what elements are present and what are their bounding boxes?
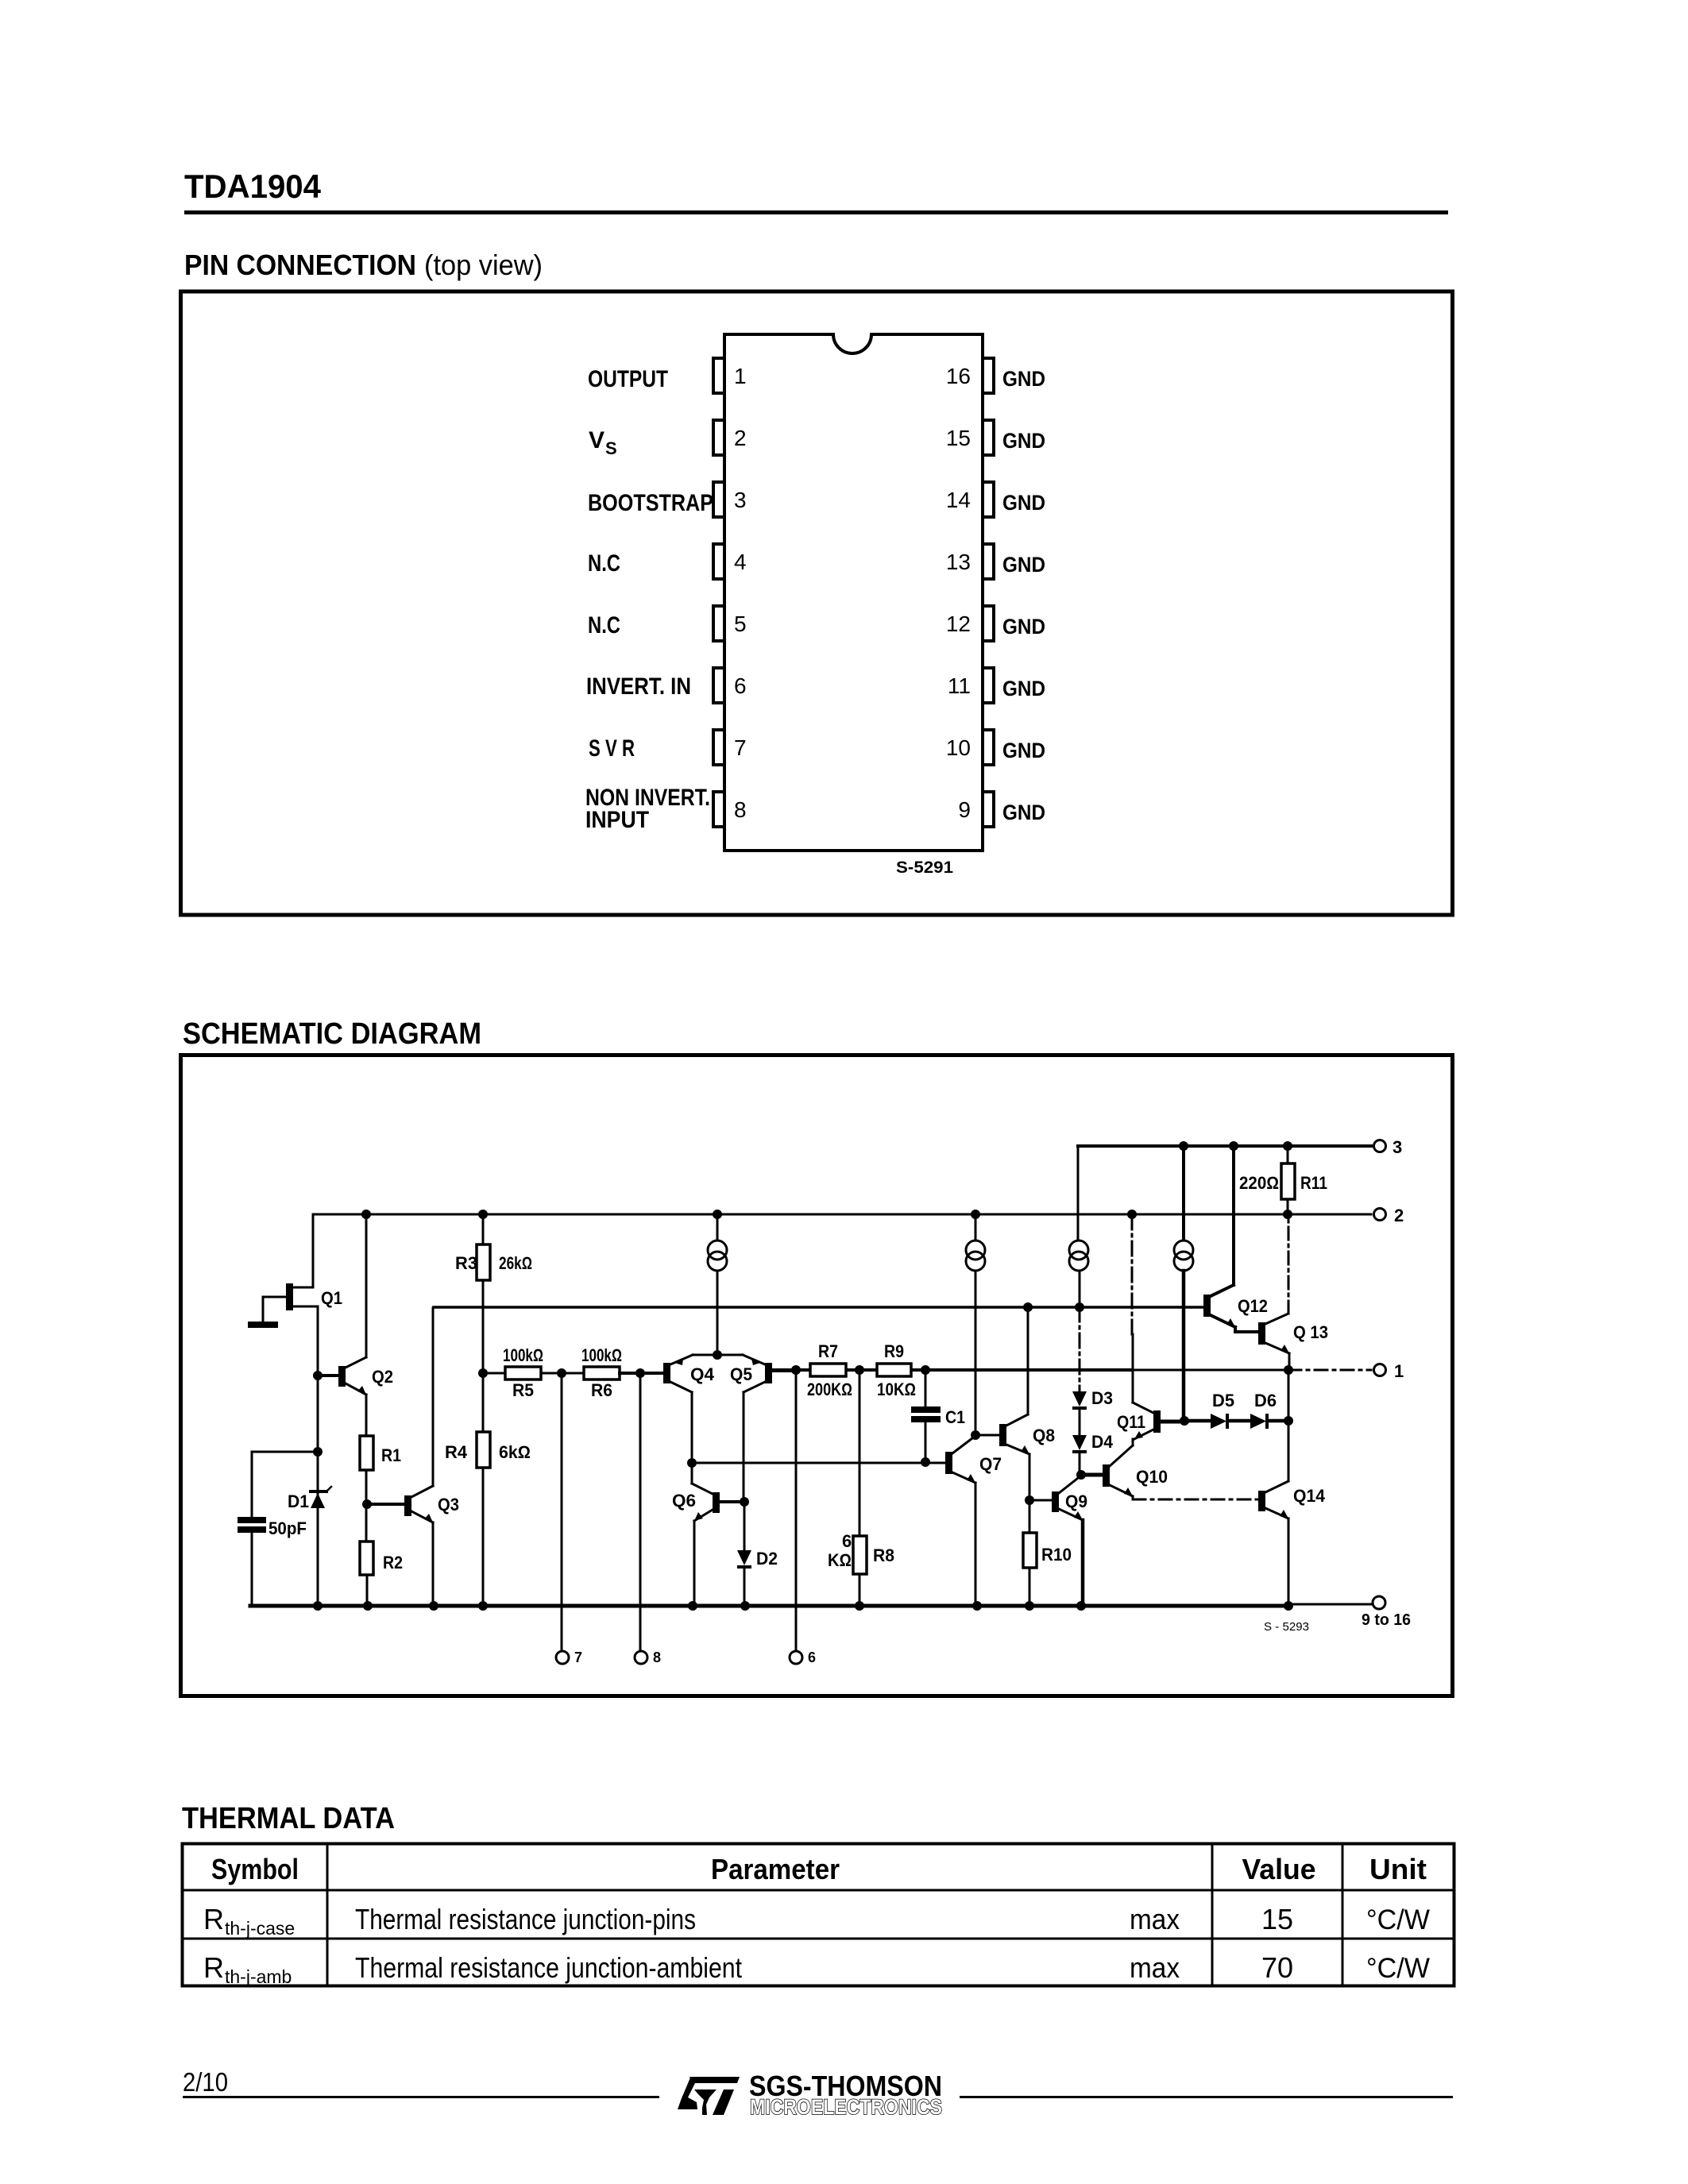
svg-text:R1: R1 xyxy=(381,1445,401,1465)
svg-text:Q9: Q9 xyxy=(1065,1491,1087,1511)
svg-text:Q7: Q7 xyxy=(979,1454,1002,1474)
svg-text:S: S xyxy=(605,438,617,458)
svg-text:5: 5 xyxy=(734,612,747,636)
diode D6 xyxy=(1250,1391,1293,1429)
svg-text:16: 16 xyxy=(946,364,971,388)
diode D1 (zener) xyxy=(288,1487,331,1606)
svg-text:(top view): (top view) xyxy=(424,249,543,281)
wire: output node vertical xyxy=(1288,1370,1290,1481)
wire: bootstrap bus (pin 3) xyxy=(1078,1141,1371,1151)
resistor R3 xyxy=(455,1214,532,1373)
wire: output line (pin 1) xyxy=(772,1365,1371,1375)
footer rule left xyxy=(183,2096,659,2098)
resistor R4 xyxy=(445,1368,531,1606)
node Q10 base junction xyxy=(1076,1470,1103,1480)
svg-text:SCHEMATIC DIAGRAM: SCHEMATIC DIAGRAM xyxy=(183,1017,481,1051)
transistor Q9 xyxy=(1025,1476,1087,1606)
svg-text:R3: R3 xyxy=(455,1253,477,1273)
svg-text:THERMAL DATA: THERMAL DATA xyxy=(182,1802,395,1835)
svg-text:KΩ: KΩ xyxy=(828,1550,852,1570)
svg-text:R: R xyxy=(203,1903,224,1935)
resistor R7 xyxy=(807,1341,852,1399)
thermal data table frame xyxy=(183,1844,1454,1986)
svg-text:D3: D3 xyxy=(1091,1388,1113,1408)
svg-text:2/10: 2/10 xyxy=(183,2067,228,2097)
resistor R8 xyxy=(828,1370,894,1606)
resistor R11 xyxy=(1239,1146,1327,1214)
svg-text:OUTPUT: OUTPUT xyxy=(588,366,668,392)
svg-text:Parameter: Parameter xyxy=(711,1853,840,1885)
resistor R6 xyxy=(557,1345,663,1400)
svg-text:D4: D4 xyxy=(1091,1432,1114,1452)
svg-text:R7: R7 xyxy=(818,1341,838,1361)
svg-text:Symbol: Symbol xyxy=(211,1853,299,1885)
svg-text:Q4: Q4 xyxy=(690,1364,715,1384)
wire: Q1 to Q2 base and D1 xyxy=(313,1306,323,1491)
wire: to pin 8 xyxy=(635,1373,661,1665)
wire: R1-R2 node to Q3 base xyxy=(362,1470,404,1542)
svg-text:R6: R6 xyxy=(591,1380,612,1400)
transistor Q10 xyxy=(1103,1439,1168,1499)
svg-text:6kΩ: 6kΩ xyxy=(499,1442,531,1462)
index notch xyxy=(833,314,871,352)
svg-text:7: 7 xyxy=(574,1650,582,1665)
pin 15 xyxy=(983,420,994,455)
svg-text:10KΩ: 10KΩ xyxy=(877,1379,916,1399)
resistor R10 xyxy=(1023,1500,1072,1606)
svg-text:11: 11 xyxy=(948,673,971,698)
svg-text:1: 1 xyxy=(1394,1361,1404,1381)
ground symbol at Q1 xyxy=(248,1322,278,1328)
node pin 1 terminal xyxy=(1374,1361,1404,1381)
svg-text:14: 14 xyxy=(946,488,971,512)
svg-text:15: 15 xyxy=(946,426,971,450)
transistor Q3 xyxy=(404,1308,459,1606)
svg-text:2: 2 xyxy=(734,426,747,450)
svg-text:D2: D2 xyxy=(756,1549,778,1569)
node pin 3 terminal xyxy=(1374,1137,1403,1157)
wire: to pin 7 xyxy=(556,1373,582,1665)
svg-text:Q14: Q14 xyxy=(1293,1486,1326,1506)
wire: ground bus (pins 9 to 16) xyxy=(250,1601,1371,1611)
svg-text:100kΩ: 100kΩ xyxy=(581,1345,622,1365)
diode D2 xyxy=(737,1502,778,1606)
svg-text:Thermal resistance junction-pi: Thermal resistance junction-pins xyxy=(355,1903,696,1935)
svg-text:6: 6 xyxy=(808,1650,816,1665)
svg-text:9 to 16: 9 to 16 xyxy=(1362,1611,1411,1629)
pin 7 xyxy=(713,730,724,765)
current source CS1 xyxy=(708,1214,727,1355)
pin 14 xyxy=(983,482,994,517)
svg-text:°C/W: °C/W xyxy=(1366,1953,1430,1984)
svg-text:D1: D1 xyxy=(288,1491,309,1511)
svg-text:R8: R8 xyxy=(873,1545,894,1565)
transistor Q5 xyxy=(713,1350,796,1497)
transistor Q2 xyxy=(318,1214,393,1436)
wire: bias bus to Q12 base xyxy=(434,1302,1204,1312)
svg-text:1: 1 xyxy=(734,364,747,388)
svg-text:Value: Value xyxy=(1242,1853,1316,1885)
pin 4 xyxy=(713,544,724,579)
svg-text:D6: D6 xyxy=(1254,1391,1277,1410)
svg-text:Q2: Q2 xyxy=(372,1367,393,1387)
svg-text:MICROELECTRONICS: MICROELECTRONICS xyxy=(750,2095,942,2119)
svg-text:R11: R11 xyxy=(1300,1173,1327,1193)
transistor Q7 xyxy=(945,1436,1002,1606)
svg-text:GND: GND xyxy=(1002,739,1045,762)
svg-text:Q5: Q5 xyxy=(730,1364,752,1384)
transistor Q1 xyxy=(263,1214,342,1322)
svg-text:S-5291: S-5291 xyxy=(896,859,953,877)
pin 11 xyxy=(983,668,994,703)
capacitor C1 xyxy=(911,1370,965,1462)
svg-text:Q10: Q10 xyxy=(1136,1467,1168,1487)
svg-text:S - 5293: S - 5293 xyxy=(1264,1620,1309,1634)
svg-text:Unit: Unit xyxy=(1369,1853,1427,1885)
svg-text:N.C: N.C xyxy=(588,550,620,577)
svg-text:3: 3 xyxy=(734,488,747,512)
wire: Q4 collector to Q7 base xyxy=(687,1457,945,1468)
svg-text:Thermal resistance junction-am: Thermal resistance junction-ambient xyxy=(355,1951,742,1984)
svg-text:R5: R5 xyxy=(512,1380,534,1400)
resistor R2 xyxy=(360,1542,403,1606)
svg-text:INVERT. IN: INVERT. IN xyxy=(586,673,691,700)
capacitor 50pF xyxy=(238,1452,318,1606)
transistor Q4 xyxy=(663,1355,717,1463)
wire: Q10 emitter to Q14 base xyxy=(1133,1499,1258,1501)
svg-text:th-j-case: th-j-case xyxy=(225,1918,295,1939)
diode D4 xyxy=(1072,1432,1114,1475)
svg-text:D5: D5 xyxy=(1212,1391,1234,1410)
svg-text:INPUT: INPUT xyxy=(585,807,649,833)
svg-text:6: 6 xyxy=(734,673,747,698)
svg-text:GND: GND xyxy=(1002,615,1045,639)
pin 2 xyxy=(713,420,724,455)
svg-text:220Ω: 220Ω xyxy=(1239,1173,1279,1193)
SGS-Thomson ST logo symbol xyxy=(678,2077,740,2115)
svg-text:TDA1904: TDA1904 xyxy=(184,168,322,205)
transistor Q8 xyxy=(975,1307,1055,1500)
svg-text:2: 2 xyxy=(1394,1206,1404,1225)
wire: supply bus Vs (pin 2) xyxy=(313,1210,1371,1219)
svg-text:GND: GND xyxy=(1002,801,1045,824)
svg-text:V: V xyxy=(589,427,605,453)
svg-text:max: max xyxy=(1130,1951,1180,1984)
svg-text:R9: R9 xyxy=(884,1341,904,1361)
svg-text:4: 4 xyxy=(734,550,747,574)
transistor Q11 xyxy=(1117,1214,1184,1439)
current source CS3 xyxy=(1069,1146,1088,1391)
resistor R5 xyxy=(483,1345,584,1400)
svg-text:Q 13: Q 13 xyxy=(1293,1322,1328,1342)
svg-text:Q11: Q11 xyxy=(1117,1412,1145,1432)
transistor Q6 xyxy=(672,1463,749,1606)
svg-text:GND: GND xyxy=(1002,367,1045,391)
header rule xyxy=(184,210,1448,214)
pin 9 xyxy=(983,792,994,827)
pin 16 xyxy=(983,358,994,393)
svg-text:C1: C1 xyxy=(945,1407,965,1427)
svg-text:8: 8 xyxy=(734,797,747,822)
svg-text:GND: GND xyxy=(1002,553,1045,577)
svg-text:10: 10 xyxy=(946,735,971,760)
resistor R1 xyxy=(360,1436,401,1470)
svg-text:Q3: Q3 xyxy=(438,1495,459,1515)
svg-text:°C/W: °C/W xyxy=(1366,1904,1430,1935)
svg-text:8: 8 xyxy=(653,1650,661,1665)
node pin 2 terminal xyxy=(1374,1206,1404,1225)
resistor R9 xyxy=(877,1341,916,1399)
svg-text:7: 7 xyxy=(734,735,747,760)
DIP-16 package body xyxy=(724,334,983,851)
svg-text:R2: R2 xyxy=(383,1553,403,1572)
pin connection frame xyxy=(181,291,1453,915)
pin 10 xyxy=(983,730,994,765)
svg-text:Q8: Q8 xyxy=(1033,1426,1055,1445)
diode D5 xyxy=(1184,1391,1250,1429)
wire: to pin 6 xyxy=(790,1370,816,1665)
svg-text:50pF: 50pF xyxy=(268,1518,307,1538)
footer rule right xyxy=(960,2096,1453,2098)
svg-text:BOOTSTRAP: BOOTSTRAP xyxy=(588,490,713,516)
transistor Q13 xyxy=(1258,1214,1328,1368)
pin 1 xyxy=(713,358,724,393)
svg-text:R4: R4 xyxy=(445,1442,468,1462)
svg-text:70: 70 xyxy=(1261,1951,1293,1984)
svg-text:Q6: Q6 xyxy=(672,1491,696,1511)
transistor Q14 xyxy=(1258,1481,1326,1604)
current source CS4 xyxy=(1174,1146,1193,1426)
pin 5 xyxy=(713,606,724,641)
pin 8 xyxy=(713,792,724,827)
svg-text:max: max xyxy=(1130,1903,1180,1935)
node pins 9 to 16 terminal xyxy=(1362,1596,1411,1629)
svg-text:R: R xyxy=(203,1951,224,1984)
svg-text:13: 13 xyxy=(946,550,971,574)
svg-text:R10: R10 xyxy=(1041,1545,1072,1565)
svg-text:PIN CONNECTION: PIN CONNECTION xyxy=(184,249,416,281)
transistor Q12 xyxy=(1203,1146,1268,1332)
pin 6 xyxy=(713,668,724,703)
diode D3 xyxy=(1072,1388,1113,1435)
current source CS2 xyxy=(966,1214,985,1440)
pin 13 xyxy=(983,544,994,579)
svg-text:GND: GND xyxy=(1002,491,1045,515)
svg-text:N.C: N.C xyxy=(588,612,620,639)
svg-text:15: 15 xyxy=(1261,1903,1293,1935)
svg-text:Q12: Q12 xyxy=(1238,1296,1268,1316)
svg-text:th-j-amb: th-j-amb xyxy=(225,1966,292,1987)
svg-text:6: 6 xyxy=(842,1531,852,1551)
pin 3 xyxy=(713,482,724,517)
svg-text:9: 9 xyxy=(958,797,971,822)
svg-text:GND: GND xyxy=(1002,677,1045,700)
svg-text:200KΩ: 200KΩ xyxy=(807,1379,852,1399)
svg-text:3: 3 xyxy=(1393,1137,1402,1157)
svg-text:S V R: S V R xyxy=(589,735,635,762)
svg-text:Q1: Q1 xyxy=(321,1288,342,1308)
svg-text:100kΩ: 100kΩ xyxy=(503,1345,543,1365)
pin 12 xyxy=(983,606,994,641)
svg-text:26kΩ: 26kΩ xyxy=(499,1253,532,1273)
svg-text:GND: GND xyxy=(1002,429,1045,453)
schematic frame xyxy=(181,1055,1453,1696)
svg-text:12: 12 xyxy=(946,612,971,636)
